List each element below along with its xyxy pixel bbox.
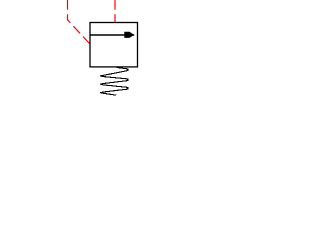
pilot line (dashed) bent (68, 0, 90, 44)
valve body box (90, 23, 138, 67)
flow path arrowhead (124, 32, 134, 38)
spring (100, 67, 128, 95)
flow path arrow shaft (90, 34, 134, 36)
pilot line (dashed) vertical (114, 0, 116, 22)
